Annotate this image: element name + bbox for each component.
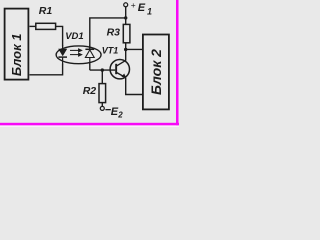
- wire photodiode cathode to +E1 node: [90, 18, 126, 50]
- terminal +E1: [124, 0, 152, 18]
- magenta selection border right: [176, 0, 179, 127]
- svg-text:2: 2: [117, 111, 123, 120]
- block BLOK1: [5, 9, 29, 80]
- magenta selection border bottom: [0, 123, 179, 126]
- resistor R3: [107, 18, 130, 50]
- photodiode of optocoupler: [85, 45, 94, 65]
- terminal -E2: [100, 106, 123, 120]
- node base junction: [101, 68, 104, 71]
- svg-text:VD1: VD1: [65, 31, 83, 42]
- svg-text:+: +: [131, 0, 136, 10]
- svg-text:R1: R1: [39, 5, 53, 17]
- resistor R1: [36, 5, 56, 30]
- svg-text:E: E: [138, 2, 146, 14]
- wire R1 to LED anode: [56, 26, 63, 46]
- svg-text:VT1: VT1: [102, 46, 119, 56]
- svg-text:R2: R2: [83, 85, 97, 97]
- wire base: [90, 69, 116, 71]
- wire LED cathode to block1: [30, 64, 63, 75]
- transistor VT1: [102, 46, 130, 79]
- wire block1 to R1: [30, 25, 36, 27]
- scan background: [0, 0, 179, 127]
- wire collector node to block2: [126, 48, 144, 50]
- node +E1 junction: [124, 16, 127, 19]
- LED of optocoupler: [58, 45, 67, 65]
- svg-text:1: 1: [147, 6, 152, 16]
- wire collector node down to transistor: [125, 50, 127, 61]
- block BLOK2: [143, 35, 169, 110]
- resistor R2: [83, 70, 106, 107]
- svg-text:Блок 1: Блок 1: [9, 33, 24, 76]
- optocoupler VD1 body: [56, 31, 101, 64]
- light arrows: [70, 49, 82, 56]
- wire photodiode anode lead down: [89, 64, 91, 71]
- node collector junction: [124, 48, 127, 51]
- wire emitter to block2: [126, 78, 144, 95]
- svg-text:R3: R3: [107, 27, 121, 39]
- svg-text:Блок 2: Блок 2: [148, 49, 164, 95]
